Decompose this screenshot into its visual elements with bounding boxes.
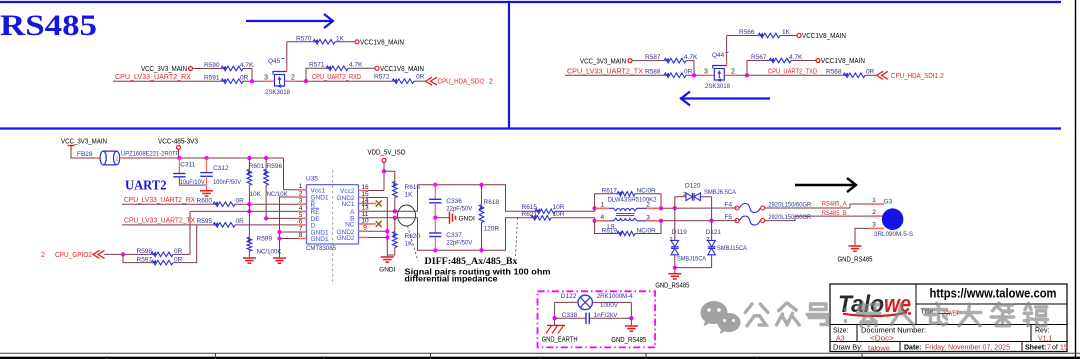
svg-text:6: 6: [299, 218, 303, 225]
svg-text:VCC1V8_MAIN: VCC1V8_MAIN: [380, 66, 424, 73]
sheet top border line: [0, 1, 1061, 3]
sheet right border: [1075, 0, 1077, 359]
power VDD_5V_ISO pin circle: [382, 158, 386, 162]
junction rail C311: [177, 156, 181, 160]
ground (R599): [243, 257, 256, 259]
capacitor C336 22pF/50V: [434, 185, 436, 200]
pin 5 DE of U35: [298, 217, 307, 219]
junction R618 top: [479, 183, 483, 187]
svg-text:SMBJ15CA: SMBJ15CA: [677, 255, 707, 262]
svg-text:2: 2: [706, 237, 709, 243]
junction rail R601: [247, 156, 251, 160]
svg-text:3RL090M-5-S: 3RL090M-5-S: [874, 231, 914, 238]
svg-text:UPZ1608E221-2R0TF: UPZ1608E221-2R0TF: [121, 151, 179, 158]
svg-text:2: 2: [872, 209, 876, 216]
wire red stub right of Q44: [724, 74, 737, 76]
pin 7 GND1 of U35: [298, 231, 307, 233]
arrow right (output): [795, 184, 855, 186]
svg-text:2: 2: [731, 68, 735, 75]
junction C338 left: [552, 316, 556, 320]
ground GND_RS485 (G3): [849, 245, 862, 247]
svg-text:GND_EARTH: GND_EARTH: [542, 336, 578, 343]
wire R600 to pin3: [235, 203, 298, 205]
inductor L9 choke body: [596, 207, 609, 209]
svg-text:2: 2: [646, 201, 650, 208]
ground GND_RS485 (D122): [630, 324, 632, 327]
wire R616 to A: [394, 198, 396, 212]
svg-text:2: 2: [670, 237, 673, 243]
wire R588 to Q44: [686, 74, 702, 76]
junction VDD branch: [382, 169, 386, 173]
wire VCC to R587: [632, 60, 664, 62]
wire red stub left of Q44: [702, 74, 714, 76]
zone tick 4: [861, 353, 863, 359]
ground GND_EARTH chassis: [547, 324, 565, 326]
svg-text:8: 8: [299, 232, 303, 239]
wire mid to GNDI: [435, 217, 449, 219]
svg-text:0R: 0R: [236, 218, 245, 225]
svg-text:https://www.talowe.com: https://www.talowe.com: [930, 286, 1057, 301]
svg-text:Rev:: Rev:: [1035, 327, 1049, 334]
svg-text:differential impedance: differential impedance: [405, 274, 499, 283]
junction choke pin2: [659, 206, 663, 210]
svg-text:1K: 1K: [405, 241, 414, 248]
svg-text:3: 3: [872, 222, 876, 229]
sheet bottom border: [0, 357, 1080, 359]
svg-text:C311: C311: [180, 162, 195, 169]
svg-text:R590: R590: [204, 62, 220, 69]
arrow right (top-left section): [246, 20, 332, 22]
callout dashed line 2: [516, 218, 518, 256]
svg-text:VCC1V8_MAIN: VCC1V8_MAIN: [360, 39, 404, 46]
wire R601 to RX line: [248, 185, 250, 204]
svg-text:talowe: talowe: [868, 345, 890, 352]
wire TX net: [565, 74, 664, 76]
svg-text:CPU_LV33_UART2_TX: CPU_LV33_UART2_TX: [567, 68, 643, 75]
svg-text:GNDI: GNDI: [379, 267, 395, 274]
svg-text:R598: R598: [137, 248, 153, 255]
svg-text:D119: D119: [672, 229, 687, 236]
wire A after choke: [661, 207, 737, 209]
svg-text:R572: R572: [374, 74, 390, 81]
svg-text:3: 3: [264, 74, 268, 81]
svg-text:F4: F4: [725, 201, 733, 208]
svg-text:DIFF:485_Ax/485_Bx: DIFF:485_Ax/485_Bx: [425, 257, 518, 267]
wire F5 to connector: [765, 216, 869, 221]
power VCC_3V3_MAIN tap symbol: [68, 145, 75, 147]
wire A net to filter: [368, 210, 418, 212]
svg-text:CMT83085: CMT83085: [306, 245, 336, 252]
svg-text:100nF/50V: 100nF/50V: [213, 179, 242, 186]
junction choke pin1: [592, 206, 596, 210]
svg-text:R601: R601: [249, 163, 265, 170]
svg-text:2SK3018: 2SK3018: [265, 89, 290, 96]
svg-text:R597: R597: [137, 256, 153, 263]
svg-text:10: 10: [361, 217, 369, 224]
junction choke pin4: [592, 219, 596, 223]
svg-text:VDD_5V_ISO: VDD_5V_ISO: [368, 150, 406, 157]
svg-text:V1.1: V1.1: [1038, 335, 1053, 342]
capacitor C311 10uF/10V: [178, 158, 180, 174]
svg-text:VCC-485-3V3: VCC-485-3V3: [158, 139, 198, 146]
svg-text:A3: A3: [836, 335, 845, 342]
svg-text:Draw By:: Draw By:: [833, 344, 863, 351]
svg-text:GND1: GND1: [311, 195, 329, 202]
power VCC-485-3V3 pin circle: [177, 146, 181, 150]
section divider vertical: [508, 2, 510, 129]
junction at R587/R588: [692, 73, 696, 77]
svg-text:NC/0R: NC/0R: [637, 227, 656, 234]
callout dashed line 1: [408, 226, 419, 261]
junction choke pin3: [659, 219, 663, 223]
svg-text:2: 2: [489, 79, 493, 86]
wire R601-R599 link: [248, 204, 250, 211]
wire A rise to pin1: [850, 204, 869, 208]
svg-text:CPU_UART2_TXD: CPU_UART2_TXD: [768, 68, 817, 75]
wire TX to R595: [122, 224, 213, 226]
wire RE line to pin4: [190, 210, 298, 212]
junction RX R601: [247, 202, 251, 206]
svg-text:R588: R588: [645, 69, 661, 76]
svg-text:GND2: GND2: [336, 235, 354, 242]
svg-text:1: 1: [299, 183, 303, 190]
wire B net to filter: [368, 217, 418, 219]
svg-text:4.7K: 4.7K: [349, 62, 363, 69]
wire VCC to R590: [193, 68, 222, 70]
svg-text:R619: R619: [602, 227, 618, 234]
svg-text:NC/0R: NC/0R: [637, 188, 656, 195]
wire R595 to pin6: [235, 224, 298, 226]
wire GPIO2 to R597 row: [123, 254, 151, 262]
wire RX net: [113, 80, 221, 82]
wire filter loop B bottom: [418, 218, 532, 251]
wire C336 to mid: [434, 203, 436, 218]
wire R621 to choke: [551, 218, 595, 221]
svg-text:10K: 10K: [249, 191, 261, 198]
svg-text:U35: U35: [306, 176, 318, 183]
wire R591 to Q45: [243, 80, 263, 82]
wire C311 bottom: [179, 177, 206, 185]
svg-text:VCC1V8_MAIN: VCC1V8_MAIN: [821, 58, 865, 65]
junction pin7 gnd: [277, 230, 281, 234]
resistor R616 1K: [393, 182, 398, 198]
wire filter loop A top: [418, 185, 536, 212]
svg-text:R600: R600: [197, 198, 213, 205]
pin 14 NC1 of U35: [359, 203, 369, 205]
ground (U35 left): [273, 257, 286, 259]
pin 9 GND2 of U35: [359, 230, 369, 232]
wire R571 to VCC1V8: [348, 67, 375, 69]
svg-text:CPU_LV33_UART2_RX: CPU_LV33_UART2_RX: [115, 74, 191, 81]
junction A TVS: [673, 206, 677, 210]
junction rail C312: [204, 156, 208, 160]
wire R620 to gnd: [387, 248, 395, 256]
svg-text:1000V: 1000V: [600, 302, 619, 309]
wire R599 to ground: [248, 251, 250, 258]
wire R619 bypass loop: [595, 221, 617, 234]
svg-text:Q44: Q44: [712, 52, 725, 59]
wire R566 row: [727, 35, 758, 37]
wire pin3 to ground: [855, 228, 869, 246]
svg-text:SMBJ15CA: SMBJ15CA: [717, 245, 748, 252]
power VCC1V8_MAIN pin circle (R570): [355, 40, 359, 44]
arrow left (top-right section): [680, 97, 770, 99]
svg-text:CPU_HDA_SDI1: CPU_HDA_SDI1: [891, 73, 938, 80]
junction B TVS: [709, 218, 713, 222]
pin 16 Vcc2 of U35: [359, 190, 369, 192]
svg-text:2: 2: [683, 192, 686, 198]
junction C336 top: [433, 183, 437, 187]
svg-text:RS485_B: RS485_B: [822, 210, 847, 217]
junction R620 B: [393, 216, 397, 220]
wire Q45 to RXD net: [297, 80, 392, 82]
svg-text:4.7K: 4.7K: [789, 54, 803, 61]
svg-text:CPU_GPIO2: CPU_GPIO2: [55, 252, 92, 259]
wire B after choke: [661, 220, 737, 222]
wire C312 bottom: [206, 176, 208, 191]
zone tick 2: [430, 353, 432, 359]
wire DE line to pin5: [266, 217, 297, 219]
offpage connector CPU_GPIO2: [93, 250, 100, 258]
gate wire from R570: [286, 42, 288, 66]
wire Q44 to TXD net: [737, 74, 843, 76]
svg-text:1K: 1K: [782, 29, 791, 36]
wire R567 to VCC1V8: [791, 60, 816, 62]
ground (C311/C312): [200, 190, 213, 192]
svg-text:4.7K: 4.7K: [684, 54, 698, 61]
svg-text:GNDI: GNDI: [459, 215, 475, 222]
pin x GND2 of U35: [359, 237, 369, 239]
svg-text:2RK1000M-4: 2RK1000M-4: [597, 293, 633, 300]
resistor R618 120R: [481, 185, 483, 205]
wire F4 to connector: [765, 207, 850, 209]
capacitor C337 22pF/50V: [434, 218, 436, 233]
power VCC1V8_MAIN pin circle (R567): [816, 59, 820, 63]
svg-text:7: 7: [1047, 344, 1051, 351]
svg-text:Vcc1: Vcc1: [311, 187, 326, 194]
svg-text:0R: 0R: [416, 74, 425, 81]
junction right of Q44: [745, 73, 749, 77]
wire R615 to choke: [555, 208, 595, 211]
svg-text:RS485: RS485: [0, 9, 97, 42]
ground GND_RS485 (D119): [673, 265, 677, 269]
svg-text:0R: 0R: [240, 75, 249, 82]
svg-text:NC: NC: [345, 222, 355, 229]
wire R617 bypass loop: [595, 194, 617, 209]
svg-text:C312: C312: [213, 165, 229, 172]
wire red stub right of Q45: [285, 80, 298, 82]
wire R568 to offpage: [865, 74, 876, 76]
watermark wechat icon: [700, 301, 740, 334]
power VCC1V8_MAIN pin circle (R571): [375, 66, 379, 70]
pin 10 NC of U35: [359, 223, 369, 225]
wire gnd2 to gnd rail: [368, 237, 387, 239]
diff pair ellipse annotation: [398, 205, 416, 226]
svg-text:R587: R587: [645, 54, 661, 61]
svg-text:R620: R620: [405, 233, 421, 240]
resistor R620 1K: [394, 218, 396, 232]
pin 4 RE of U35: [298, 210, 307, 212]
junction at R590/R591: [250, 79, 254, 83]
svg-text:CPU_LV33_UART2_RX: CPU_LV33_UART2_RX: [124, 197, 195, 204]
svg-text:R570: R570: [296, 35, 312, 42]
svg-text:VCC_3V3_MAIN: VCC_3V3_MAIN: [61, 139, 107, 146]
junction rail R596: [264, 156, 268, 160]
wire pin15 to gnd rail: [368, 198, 387, 256]
pin 2 GND1 of U35: [298, 196, 307, 198]
wire branch to R616: [384, 171, 395, 181]
svg-text:10R: 10R: [553, 211, 565, 218]
pin 15 GND2 of U35: [359, 197, 369, 199]
svg-text:R571: R571: [309, 62, 325, 69]
power VCC1V8_MAIN pin circle (R566): [797, 34, 801, 38]
wire R566 to VCC1V8: [780, 35, 797, 37]
power VCC_3V3_MAIN pin circle: [189, 67, 193, 71]
svg-text:Size:: Size:: [833, 327, 849, 334]
svg-text:GND_RS485: GND_RS485: [655, 282, 689, 289]
svg-text:G3: G3: [884, 198, 893, 205]
svg-text:3: 3: [299, 198, 303, 205]
junction pin8 gnd: [277, 236, 281, 240]
watermark text: [745, 304, 768, 326]
svg-text:C336: C336: [446, 198, 462, 205]
junction R616 A: [393, 209, 397, 213]
resistor R599 NC/100K: [248, 211, 250, 237]
svg-text:R599: R599: [257, 236, 273, 243]
svg-text:D121: D121: [706, 229, 722, 236]
wire D122 right vertical: [630, 302, 632, 325]
pin 6 D of U35: [298, 224, 307, 226]
svg-text:2: 2: [116, 157, 119, 163]
svg-text:RS485_A: RS485_A: [822, 201, 848, 208]
svg-text:22pF/50V: 22pF/50V: [446, 205, 473, 212]
svg-text:CPU_LV33_UART2_TX: CPU_LV33_UART2_TX: [124, 218, 195, 225]
svg-text:F5: F5: [725, 214, 733, 221]
svg-text:0R: 0R: [174, 248, 183, 255]
junction GPIO2 split: [121, 252, 125, 256]
svg-text:2: 2: [291, 74, 295, 81]
junction pin9 gnd: [385, 229, 389, 233]
svg-text:4.7K: 4.7K: [240, 62, 254, 69]
svg-text:1: 1: [872, 197, 876, 204]
wire R598 to RE: [173, 211, 190, 254]
svg-text:Q45: Q45: [268, 58, 281, 65]
svg-text:D120: D120: [685, 182, 701, 189]
svg-text:Sheet:: Sheet:: [1025, 344, 1046, 351]
offpage connector CPU_HDA_SDI2: [426, 77, 433, 85]
svg-text:R596: R596: [267, 163, 283, 170]
svg-text:22pF/50V: 22pF/50V: [446, 239, 473, 246]
svg-text:1K: 1K: [336, 35, 345, 42]
offpage connector CPU_HDA_SDI1: [877, 71, 884, 79]
svg-text:D122: D122: [561, 293, 577, 300]
svg-text:<Doc>: <Doc>: [870, 336, 894, 343]
svg-text:D: D: [311, 223, 316, 230]
wire pin8 to gnd rail: [280, 238, 298, 240]
svg-text:C337: C337: [446, 232, 462, 239]
wire VCC-485 down to rail: [178, 150, 180, 159]
svg-text:1: 1: [105, 157, 108, 163]
wire R570 to VCC1V8: [335, 41, 355, 43]
svg-text:2SK3018: 2SK3018: [705, 83, 730, 90]
no-connect X pin 14: [368, 203, 376, 205]
svg-text:R567: R567: [751, 54, 767, 61]
pin 13 A of U35: [359, 210, 369, 212]
svg-text:3: 3: [646, 214, 650, 221]
svg-text:Vcc2: Vcc2: [340, 188, 355, 195]
svg-text:Friday, November 07, 2025: Friday, November 07, 2025: [925, 344, 1010, 351]
pin 3 R of U35: [298, 203, 307, 205]
wire GND1 rail: [280, 197, 298, 258]
title block dividers: [915, 284, 917, 325]
svg-text:4: 4: [299, 205, 303, 212]
svg-text:2: 2: [41, 252, 45, 259]
wire RX to R600: [122, 203, 213, 205]
junction R596 DE: [264, 216, 268, 220]
isolation barrier dashed line: [332, 170, 334, 285]
wire Vcc1 feed: [284, 158, 298, 190]
wire R570 row: [287, 41, 313, 43]
wire R572 to offpage: [414, 80, 425, 82]
svg-text:3: 3: [704, 68, 708, 75]
svg-text:NC1: NC1: [341, 201, 354, 208]
wire pin7 to gnd rail: [280, 231, 298, 233]
svg-text:GND1: GND1: [311, 236, 329, 243]
svg-text:1: 1: [601, 201, 605, 208]
svg-text:CPU_HDA_SDI2: CPU_HDA_SDI2: [438, 79, 485, 86]
svg-text:15: 15: [1060, 344, 1068, 351]
sheet bottom zone line: [0, 352, 1080, 354]
svg-text:R617: R617: [602, 188, 618, 195]
svg-text:of: of: [1052, 344, 1058, 351]
svg-text:Date:: Date:: [904, 344, 922, 351]
svg-text:R: R: [311, 202, 316, 209]
pin 11 B of U35: [359, 217, 369, 219]
no-connect X pin 10: [368, 223, 376, 225]
junction RE R599: [247, 209, 251, 213]
zone tick 1: [215, 353, 217, 359]
wire VDD down: [383, 162, 385, 190]
svg-text:SMBJ6.5CA: SMBJ6.5CA: [704, 189, 737, 196]
svg-text:R568: R568: [826, 68, 842, 75]
svg-text:R595: R595: [197, 218, 213, 225]
svg-text:VCC_3V3_MAIN: VCC_3V3_MAIN: [141, 66, 187, 73]
junction C337 bottom: [433, 248, 437, 252]
section divider horizontal: [0, 127, 1061, 129]
svg-text:Document Number:: Document Number:: [861, 327, 926, 334]
svg-text:2: 2: [940, 73, 944, 80]
svg-text:1nF/2kV: 1nF/2kV: [594, 312, 619, 319]
ground GNDI (right): [386, 255, 388, 257]
wire VCC to FB28: [71, 150, 98, 158]
svg-text:FB28: FB28: [77, 151, 93, 158]
svg-text:RE: RE: [311, 209, 321, 216]
svg-text:1K: 1K: [405, 192, 414, 199]
junction right of Q45: [304, 79, 308, 83]
svg-text:VCC_3V3_MAIN: VCC_3V3_MAIN: [580, 58, 626, 65]
svg-text:16: 16: [361, 184, 369, 191]
wire R597 to TX: [173, 225, 197, 263]
svg-text:R591: R591: [204, 75, 220, 82]
junction C338 right: [629, 316, 633, 320]
svg-text:4: 4: [601, 214, 605, 221]
svg-text:VCC1V8_MAIN: VCC1V8_MAIN: [802, 33, 846, 40]
svg-text:2: 2: [299, 190, 303, 197]
wire R567 branch: [747, 61, 769, 76]
gate wire from R566: [726, 36, 728, 61]
svg-text:GND_RS485: GND_RS485: [611, 337, 646, 344]
svg-text:0R: 0R: [866, 68, 875, 75]
